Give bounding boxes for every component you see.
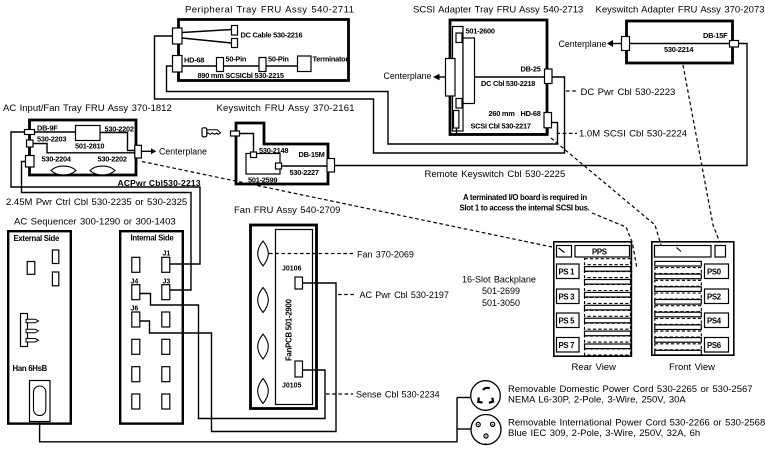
svg-text:PPS: PPS [592,248,607,257]
connector: DC cable end A [232,26,238,36]
svg-text:530-2202: 530-2202 [98,155,127,164]
dashed line: keyswitch adapter to front view small box [683,65,720,242]
svg-text:PS6: PS6 [707,341,722,350]
connector: J6 [132,312,140,327]
svg-text:HD-68: HD-68 [184,56,204,65]
svg-text:DC Cbl 530-2218: DC Cbl 530-2218 [481,79,535,88]
rear view: PPS box [575,246,630,258]
connector: DB-25 [545,69,553,84]
fan blade 3 [258,334,269,359]
rear view: PS1 box [557,264,580,279]
svg-text:Rear View: Rear View [572,362,617,373]
icon: domestic plug NEMA L6-30P [471,381,501,411]
svg-text:50-Pin: 50-Pin [226,55,247,64]
wire: DC Cbl 530-2218 inside SCSI tray [475,76,546,78]
dashed label lead: Fan 370-2069 [269,253,353,255]
svg-text:J1: J1 [163,251,171,258]
svg-text:Keyswitch Adapter FRU Assy 370: Keyswitch Adapter FRU Assy 370-2073 [596,5,765,16]
front view: PS2 box [705,289,729,304]
wire: 530-2202 (501-2810 to centerplane connector) [100,133,136,151]
svg-text:J0106: J0106 [282,266,302,273]
svg-text:DB-25: DB-25 [521,65,541,74]
card connector top [456,33,462,43]
svg-text:PS 1: PS 1 [559,268,576,277]
dashed label lead: AC Pwr Cbl 530-2197 [338,294,356,296]
rear view: cable entry box [557,246,572,258]
front view: panel tick [677,248,682,252]
card 501-2600 wide body [463,38,475,104]
rear view: 16 card slots (dashed = hidden) [585,259,631,355]
svg-text:501-2699: 501-2699 [482,286,520,296]
wire: Remote Keyswitch Cbl 530-2225 (DB-15M to keyswitch adapter) [335,44,748,166]
connector: 530-2204 [26,156,35,168]
svg-text:Remote Keyswitch Cbl 530-2225: Remote Keyswitch Cbl 530-2225 [425,169,566,180]
wire: 2.45M Pwr Ctrl Cbl (530-2204 conn to sequencer J3) [22,162,192,291]
svg-text:Internal Side: Internal Side [131,234,175,243]
svg-text:DB-9F: DB-9F [37,124,58,133]
icon: key [202,128,221,137]
svg-text:SCSI Cbl 530-2217: SCSI Cbl 530-2217 [471,122,531,131]
box: AC Sequencer Internal Side [120,231,183,423]
icon: AC inlet prongs [21,314,39,347]
connector: sequencer internal row4 left [132,339,140,354]
dashed label lead: Sense Cbl 530-2234 [326,393,353,395]
svg-text:890 mm SCSICbl 530-2215: 890 mm SCSICbl 530-2215 [198,71,284,80]
board 501-2810 [76,126,101,141]
connector: Han 6HsB [30,381,51,422]
svg-text:AC Pwr Cbl 530-2197: AC Pwr Cbl 530-2197 [360,290,449,300]
connector: 530-2203 [27,140,34,147]
box: Peripheral Tray FRU Assy 540-2711 [179,20,349,81]
connector: sequencer internal row5 right [162,367,170,382]
svg-text:Front View: Front View [669,362,715,373]
connector: SCSI tray HD-68 [544,113,552,128]
fan blade 4 [258,379,269,404]
wire: 530-2203 to centerplane connector [33,144,136,153]
svg-text:2.45M Pwr Ctrl Cbl 530-2235 or: 2.45M Pwr Ctrl Cbl 530-2235 or 530-2325 [6,197,187,208]
svg-text:Blue IEC 309, 2-Pole, 3-Wire,: Blue IEC 309, 2-Pole, 3-Wire, 250V, 32A,… [508,428,700,439]
svg-text:DB-15M: DB-15M [299,150,325,159]
connector: J0105 [295,361,303,377]
fan ellipse AC tray 2 [90,166,115,175]
connector: sequencer internal row4 right [162,339,170,354]
svg-text:Centerplane: Centerplane [384,71,432,81]
connector: SCSI tray centerplane [446,59,456,97]
wire: keyswitch 530-2227 [282,165,328,167]
svg-text:Keyswitch FRU Assy 370-2161: Keyswitch FRU Assy 370-2161 [217,103,355,114]
box: AC Input/Fan Tray FRU Assy 370-1812 [30,120,137,175]
front view: 16 card slots [655,261,702,355]
connector: keyswitch adapter centerplane [622,37,630,51]
svg-text:ACPwr Cbl530-2213: ACPwr Cbl530-2213 [118,178,201,188]
box: AC Sequencer External Side [8,231,71,423]
svg-text:530-2204: 530-2204 [42,155,72,164]
wire: AC Pwr Cbl 530-2197 (sequencer J6 to fan J0106) [140,283,336,432]
svg-text:J3: J3 [163,279,171,286]
svg-text:Fan FRU Assy 540-2709: Fan FRU Assy 540-2709 [234,205,340,216]
svg-text:501-2810: 501-2810 [75,142,104,151]
wire: power cord from Han 6HsB to plugs [40,398,457,442]
svg-text:Fan 370-2069: Fan 370-2069 [357,250,414,260]
arrow: to Centerplane (keyswitch adapter) [613,43,622,45]
connector: 50-Pin B [259,58,266,72]
svg-text:Slot 1 to access the internal: Slot 1 to access the internal SCSI bus. [460,204,590,213]
connector: DC cable end B [232,39,238,48]
box: Fan FRU Assy 540-2709 [251,225,317,409]
svg-text:530-2227: 530-2227 [290,168,319,177]
dashed label lead: 1.0M SCSI Cbl 530-2224 [557,132,578,134]
svg-text:FanPCB 501-2900: FanPCB 501-2900 [285,298,294,361]
wire: ACPwr Cbl 530-2213 (DB-9F to sequencer J1) [11,132,200,264]
box: 16-slot backplane Front View [652,242,734,355]
fan blade 1 [258,241,269,266]
front view: PS0 box [705,264,729,279]
svg-text:J0105: J0105 [282,383,302,390]
board FanPCB 501-2900 [276,230,313,405]
front view: PS4 box [705,313,729,328]
connector: peripheral DC power [173,28,183,44]
connector: J0106 [295,277,303,289]
svg-text:AC Sequencer 300-1290 or 3: AC Sequencer 300-1290 or 300-1403 [14,217,176,228]
svg-text:Removable Domestic Power Cord: Removable Domestic Power Cord 530-2265 o… [508,384,753,395]
connector: J1 [162,257,170,272]
wire: 890mm SCSI cable inside peripheral tray [182,65,298,67]
card connector bottom (SCSI) [454,111,459,129]
connector: DB-15F right stub [730,41,739,48]
box: Keyswitch Adapter FRU Assy 370-2073 [627,21,733,63]
front view: PS6 box [705,338,729,353]
connector: sequencer internal row5 left [132,367,140,382]
svg-text:Han 6HsB: Han 6HsB [13,364,48,373]
connector: sequencer internal row6 right [162,394,170,409]
wire: Sense Cbl 530-2234 (sequencer J4 to fan J0105) [140,294,325,419]
svg-text:Terminator: Terminator [313,55,349,64]
wire: DC cable lines to DC Cable 530-2216 connectors [182,30,232,33]
svg-text:DC Cable 530-2216: DC Cable 530-2216 [241,31,303,40]
svg-text:501-2599: 501-2599 [248,176,277,185]
svg-text:SCSI Adapter Tray FRU Assy 540: SCSI Adapter Tray FRU Assy 540-2713 [413,5,583,16]
connector: AC tray centerplane [135,145,142,158]
wire: stub to domestic plug [457,397,470,399]
wire: 530-2214 inside keyswitch adapter [630,43,730,45]
svg-text:501-2600: 501-2600 [466,27,495,36]
dashed line: note pointer to Slot 1 [592,213,637,269]
svg-text:AC Input/Fan Tray FRU Assy 370: AC Input/Fan Tray FRU Assy 370-1812 [3,103,172,114]
box: 16-slot backplane Rear View [554,242,632,356]
connector: peripheral HD-68 [173,56,183,73]
svg-text:PS4: PS4 [707,317,722,326]
svg-text:Centerplane: Centerplane [559,39,607,49]
svg-text:HD-68: HD-68 [521,109,541,118]
svg-text:A terminated I/O board is requ: A terminated I/O board is required in [463,193,587,202]
connector: sequencer internal row6 left [132,394,140,409]
card connector middle [456,99,462,109]
connector: 50-Pin A [217,58,224,72]
svg-text:16-Slot Backplane: 16-Slot Backplane [462,275,536,285]
connector: DB-9F [25,130,35,135]
arrow: to Centerplane (SCSI tray) [440,76,447,78]
connector: Terminator [298,56,312,72]
wire: keyswitch 530-2148 [240,134,254,153]
svg-text:530-2148: 530-2148 [259,146,288,155]
rear view: PS5 box [557,313,580,328]
svg-text:1.0M SCSI Cbl 530-2224: 1.0M SCSI Cbl 530-2224 [579,129,687,140]
wire: 1.0M SCSI Cbl 530-2224 (peripheral HD-68 to SCSI tray HD-68) [167,66,558,144]
rear view: PS7 box [557,338,580,353]
connector: sequencer external rect right top [52,250,58,264]
connector: sequencer external rect left [27,262,35,275]
svg-text:PS 7: PS 7 [559,341,575,350]
svg-text:Centerplane: Centerplane [159,147,207,157]
icon: international plug IEC 309 [471,415,501,446]
connector: sequencer external rect right bottom [52,272,58,286]
front view: keyswitch panel box [655,246,712,258]
wire: SCSI Cbl 530-2217 (thick) [457,128,549,135]
svg-text:260 mm: 260 mm [489,109,516,118]
svg-text:J4: J4 [131,279,139,286]
svg-text:NEMA L6-30P, 2-Pole, 3-Wire, 2: NEMA L6-30P, 2-Pole, 3-Wire, 250V, 30A [508,395,686,406]
svg-text:Removable International Power: Removable International Power Cord 530-2… [508,418,765,429]
svg-text:PS0: PS0 [707,268,722,277]
svg-text:External Side: External Side [14,234,60,243]
svg-text:Sense Cbl 530-2234: Sense Cbl 530-2234 [356,390,440,400]
rear view: cable entry tick [559,248,565,253]
connector: keyswitch FRU left [231,131,240,136]
fan ellipse AC tray 1 [51,166,76,175]
connector: 501-2599 right square [276,163,282,169]
svg-text:501-3050: 501-3050 [482,298,520,308]
svg-text:50-Pin: 50-Pin [268,55,289,64]
board 501-2599 [246,154,280,175]
svg-text:530-2203: 530-2203 [37,135,66,144]
svg-text:530-2202: 530-2202 [105,125,134,134]
connector: J3 [162,285,170,300]
wire: DC Pwr Cbl 530-2223 (peripheral DC conn to SCSI tray DB-25) [155,36,565,153]
rear view: PS3 box [557,289,580,304]
connector: sequencer internal row3 right [162,312,170,327]
svg-text:DB-15F: DB-15F [703,31,728,40]
svg-text:PS2: PS2 [707,293,722,302]
connector: J2 [132,257,140,272]
fan blade 2 [258,288,269,313]
front view: small connector box [715,246,726,258]
dashed label lead: DC Pwr Cbl 530-2223 [566,90,578,92]
connector: 530-2148 square [251,152,257,158]
svg-text:PS 3: PS 3 [559,293,576,302]
svg-text:DC Pwr Cbl 530-2223: DC Pwr Cbl 530-2223 [581,87,676,98]
svg-text:530-2214: 530-2214 [664,45,694,54]
svg-text:J6: J6 [131,306,139,313]
connector: DB-15M [327,159,335,173]
arrow: to Centerplane (AC tray) [141,150,151,152]
card 501-2600 tall body [453,27,464,132]
dashed line: SCSI tray corner to front view keyswitch panel [551,138,661,245]
connector: J4 [132,285,140,300]
box: SCSI Adapter Tray FRU Assy 540-2713 [450,20,547,135]
svg-text:PS 5: PS 5 [559,317,576,326]
svg-text:Peripheral Tray FRU Assy 540-2: Peripheral Tray FRU Assy 540-2711 [185,5,354,16]
wire: DB-9F to 501-2810 [35,131,76,133]
dashed line: AC centerplane connector to rear view entry box [142,162,552,248]
box: Keyswitch FRU Assy 370-2161 (L-shape) [236,123,328,184]
wire: stub to international plug [457,428,471,430]
